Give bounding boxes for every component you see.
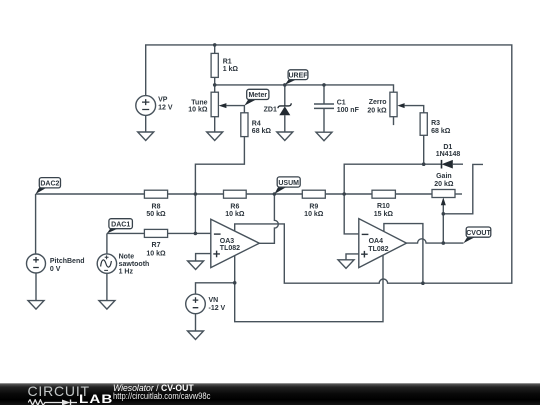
wire OA3 Vminus to OA4 Vminus [235,255,383,322]
svg-text:R1: R1 [223,59,232,66]
source VP [136,96,173,116]
svg-text:20 kΩ: 20 kΩ [367,108,387,115]
svg-text:R9: R9 [309,203,318,210]
svg-text:D1: D1 [443,144,452,151]
svg-text:-12 V: -12 V [209,305,226,312]
wire OA4 plus input to ground [346,254,359,260]
wire ZD1 top drop [284,85,286,106]
svg-text:Meter: Meter [248,92,267,99]
wire R1 top stub [214,45,216,54]
svg-text:10 kΩ: 10 kΩ [188,107,208,114]
junction VN rail OA3 Vminus [233,281,237,285]
svg-text:Zerro: Zerro [369,99,387,106]
svg-text:OA4: OA4 [369,238,384,245]
svg-text:TL082: TL082 [368,246,388,253]
svg-text:50 kΩ: 50 kΩ [146,211,166,218]
svg-text:1N4148: 1N4148 [436,151,461,158]
svg-text:1 Hz: 1 Hz [119,269,134,276]
ground below Tune [207,132,223,141]
wire C1 top drop [323,85,325,104]
junction OA4 Vplus bottom rail [421,281,425,285]
resistor R1 [211,53,238,77]
resistor R6 [224,190,247,218]
node flag UREF [285,70,308,85]
svg-text:VP: VP [158,97,168,104]
wire R4 bottom to summing node column [195,137,244,234]
svg-text:R6: R6 [230,203,239,210]
wire C1 to ground [323,108,325,132]
svg-text:10 kΩ: 10 kΩ [304,211,324,218]
ground below PitchBend [28,301,44,310]
wire R6 to USUM [246,193,274,195]
node flag USUM [274,177,300,194]
wire Tune wiper to R4 top [226,106,244,113]
svg-text:VN: VN [209,297,219,304]
svg-text:R3: R3 [431,120,440,127]
wire R7 to node A column [168,232,196,234]
wire D1 row left to OA4 minus input [344,164,424,234]
wire node to OA3 minus input [195,232,211,234]
CircuitLab logo text [28,383,90,399]
svg-text:0 V: 0 V [50,266,61,273]
wire VN to rail [196,283,235,294]
CircuitLab logo zigzag and diode [28,399,78,406]
potentiometer Zerro [367,92,404,117]
wire Tune to ground [214,117,216,132]
svg-text:R7: R7 [152,242,161,249]
ground below VP [138,132,154,141]
node flag Meter [244,89,269,105]
svg-text:UREF: UREF [288,72,308,79]
svg-text:DAC2: DAC2 [40,180,59,187]
wire USUM down to OA3 output with hop [259,194,279,243]
resistor R3 [420,113,451,136]
wire DAC1 to R7 [107,232,144,234]
wire DAC2 to R8 [36,193,145,195]
wire PitchBend to ground [35,273,37,301]
wire VP to ground [145,115,147,132]
wire Zerro bottom stub [393,117,395,125]
svg-text:USUM: USUM [278,180,299,187]
svg-text:10 kΩ: 10 kΩ [146,250,166,257]
wire Gain pot right stub [455,193,462,195]
wire DAC1 to Note [106,233,108,254]
wire UREF rail to Zerro top [215,85,394,92]
wire Note to ground [106,273,108,300]
source Note sawtooth [97,253,149,275]
svg-text:R8: R8 [152,203,161,210]
potentiometer Gain [432,173,455,205]
wire OA3 plus input to ground [196,254,211,261]
node flag CVOUT [464,227,492,243]
wire USUM to R9 [274,193,302,195]
svg-text:Tune: Tune [191,99,207,106]
junction Gain wiper row [442,212,446,216]
resistor R7 [144,229,167,257]
ground below ZD1 [277,132,293,141]
wire node A to R6 [195,193,223,195]
svg-text:R10: R10 [377,203,390,210]
resistor R8 [144,190,167,218]
svg-text:20 kΩ: 20 kΩ [434,181,454,188]
wire Zerro wiper to R3 top [405,106,424,113]
wire ZD1 to ground [284,115,286,132]
svg-text:100 nF: 100 nF [337,107,360,114]
footer url [113,391,210,401]
junction USUM [273,192,277,196]
resistor R9 [302,190,325,218]
zener diode ZD1 [264,103,292,115]
capacitor C1 [314,99,360,114]
resistor R4 [241,113,272,137]
svg-text:sawtooth: sawtooth [119,261,150,268]
footer title [113,383,194,393]
svg-text:PitchBend: PitchBend [50,258,85,265]
svg-text:Gain: Gain [436,173,452,180]
svg-text:Note: Note [119,253,135,260]
potentiometer Tune [188,92,226,117]
wire R10 to Gain pot [395,193,432,195]
svg-text:68 kΩ: 68 kΩ [252,128,272,135]
junction R1 top [213,43,217,47]
wire R8 to node A [168,193,196,195]
footer bar [0,383,540,405]
resistor R10 [372,190,395,218]
wire VP top rail, right rail, bottom rail and OA3 V+ wire [146,45,512,283]
junction ZD1 top [283,83,287,87]
ground below C1 [316,132,332,141]
junction node A R7 row [194,232,198,236]
ground below Note [99,301,115,310]
svg-text:1 kΩ: 1 kΩ [223,66,239,73]
ground below VN [188,331,204,340]
wire L-wire from stub to Gain wiper row [443,164,483,213]
op-amp OA4 [359,219,407,268]
node flag DAC2 [36,178,61,194]
wire D1 anode stub [424,163,463,165]
junction R9 R10 OA4 branch [342,192,346,196]
diode D1 [436,144,461,169]
svg-text:68 kΩ: 68 kΩ [431,128,451,135]
ground at OA3 plus input [188,261,204,270]
node flag DAC1 [107,219,132,234]
source VN [186,294,226,314]
wire OA4 Vplus to bottom rail [384,224,423,284]
junction R1 bottom UREF rail [213,83,217,87]
svg-text:15 kΩ: 15 kΩ [374,211,394,218]
wire R3 bottom to D1 row [423,135,425,164]
wire R9 to R10 [325,193,372,195]
junction D1 R3 [422,162,426,166]
svg-text:C1: C1 [337,99,346,106]
junction OA4 output Gain wiper [442,241,446,245]
wire Gain wiper arrow column [442,205,444,243]
CircuitLab logo LAB [79,394,113,406]
svg-text:R4: R4 [252,121,261,128]
svg-text:DAC1: DAC1 [111,221,130,228]
svg-text:12 V: 12 V [158,104,173,111]
wire OA4 output with hop to CVOUT [407,239,464,243]
junction node A R8 R6 [194,192,198,196]
svg-text:ZD1: ZD1 [264,106,277,113]
svg-text:10 kΩ: 10 kΩ [225,211,245,218]
junction C1 top [322,83,326,87]
source PitchBend [27,254,85,273]
wire R1 bottom to Tune top [214,77,216,92]
ground at OA4 plus input [338,260,354,269]
op-amp OA3 [211,219,259,267]
wire DAC2 to PitchBend [35,194,37,254]
svg-text:CVOUT: CVOUT [466,230,491,237]
svg-text:TL082: TL082 [220,245,240,252]
wire VN to ground [195,314,197,331]
